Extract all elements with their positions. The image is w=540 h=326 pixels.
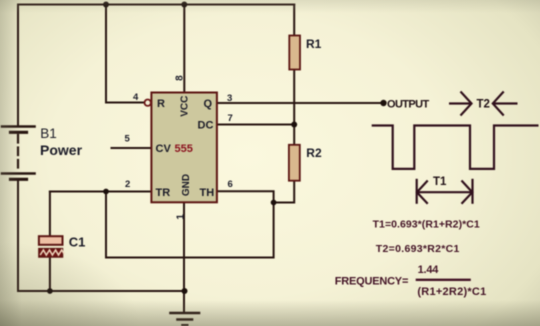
svg-text:R: R — [157, 98, 165, 110]
svg-text:(R1+2R2)*C1: (R1+2R2)*C1 — [417, 286, 486, 298]
svg-text:B1: B1 — [40, 126, 57, 141]
svg-text:R1: R1 — [306, 37, 322, 51]
svg-text:1: 1 — [176, 214, 187, 220]
svg-text:GND: GND — [181, 174, 192, 196]
svg-text:5: 5 — [125, 134, 131, 145]
svg-text:6: 6 — [228, 179, 233, 190]
svg-text:TR: TR — [156, 187, 171, 199]
svg-text:C1: C1 — [69, 234, 86, 249]
svg-text:CV: CV — [156, 143, 172, 155]
svg-text:8: 8 — [174, 75, 185, 81]
svg-text:Power: Power — [40, 142, 83, 158]
svg-text:3: 3 — [227, 93, 232, 104]
svg-text:T1=0.693*(R1+R2)*C1: T1=0.693*(R1+R2)*C1 — [373, 218, 480, 230]
svg-text:4: 4 — [133, 92, 139, 103]
svg-text:555: 555 — [175, 143, 193, 155]
svg-text:DC: DC — [198, 120, 214, 132]
svg-text:T2: T2 — [477, 99, 490, 111]
svg-text:2: 2 — [125, 179, 130, 190]
svg-text:T1: T1 — [433, 176, 447, 188]
svg-text:1.44: 1.44 — [418, 264, 440, 276]
svg-text:7: 7 — [228, 113, 233, 124]
svg-text:Q: Q — [204, 98, 213, 110]
svg-text:FREQUENCY=: FREQUENCY= — [335, 275, 409, 287]
svg-text:VCC: VCC — [180, 96, 191, 117]
svg-text:OUTPUT: OUTPUT — [387, 99, 430, 111]
svg-text:R2: R2 — [306, 146, 322, 160]
svg-text:TH: TH — [200, 187, 215, 199]
svg-text:T2=0.693*R2*C1: T2=0.693*R2*C1 — [376, 243, 460, 255]
